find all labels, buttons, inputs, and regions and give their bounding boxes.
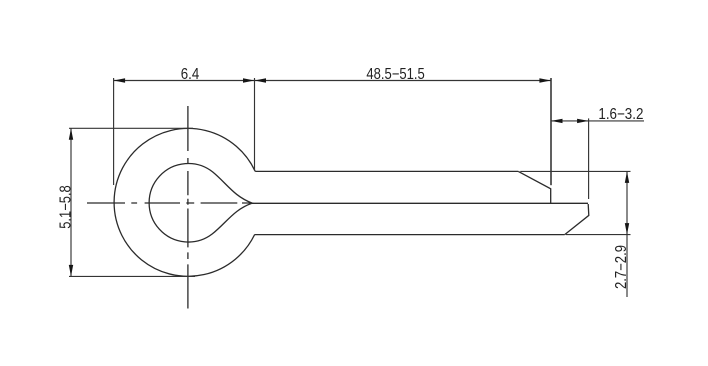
svg-text:48.5−51.5: 48.5−51.5: [366, 66, 424, 83]
svg-text:6.4: 6.4: [181, 66, 200, 83]
svg-text:1.6−3.2: 1.6−3.2: [598, 106, 643, 123]
svg-text:5.1−5.8: 5.1−5.8: [57, 185, 74, 229]
svg-text:2.7−2.9: 2.7−2.9: [613, 245, 630, 289]
